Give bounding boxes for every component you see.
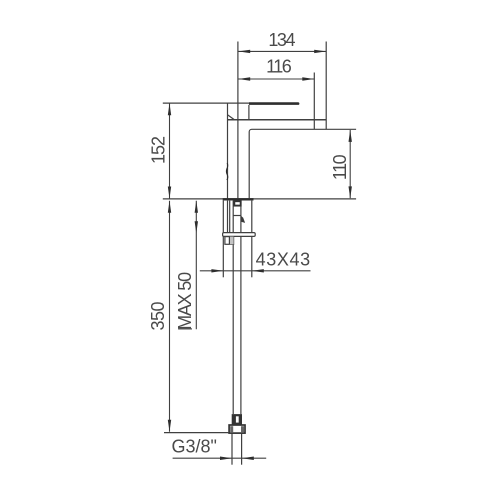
svg-text:350: 350	[148, 301, 168, 330]
svg-text:G3/8": G3/8"	[171, 436, 216, 456]
pipe top connector box	[234, 201, 240, 205]
svg-text:MAX 50: MAX 50	[175, 272, 195, 330]
shank left edge / 43X43 left extension	[222, 201, 224, 233]
svg-text:110: 110	[330, 154, 350, 180]
dimension line G3/8	[173, 457, 267, 459]
dimension line MAX 50	[195, 201, 197, 330]
dimension line 152	[169, 103, 171, 198]
arrow 350 top	[168, 201, 171, 213]
spout underside + 110 top reference line	[249, 129, 356, 198]
arrow 116 right	[302, 77, 314, 80]
svg-text:43X43: 43X43	[256, 250, 311, 270]
arrow 110 bottom	[349, 186, 352, 198]
svg-text:116: 116	[266, 56, 292, 76]
counter line	[163, 198, 356, 200]
arrow 350 bottom	[168, 420, 171, 432]
shank right edge / 43X43 right extension	[251, 201, 253, 233]
arrow 152 bottom	[168, 187, 171, 199]
handle base right edge	[248, 105, 250, 120]
hex fitting upper	[232, 414, 242, 425]
arrow 43X43 right (outside)	[252, 269, 264, 272]
arrow G3/8 right (outside)	[242, 457, 254, 461]
arrow MAX50 up	[195, 201, 198, 213]
bottom reference line (350)	[164, 432, 229, 434]
arrow 43X43 left (outside)	[211, 269, 223, 272]
dimension line 43X43	[200, 270, 311, 272]
supply pipe right edge	[240, 201, 242, 233]
arrow 134 right	[314, 50, 326, 53]
arrow MAX50 down	[195, 221, 198, 233]
mounting flange	[223, 233, 256, 237]
spout right end edge / 134 extension	[325, 42, 327, 130]
svg-text:152: 152	[149, 136, 169, 164]
arrow 116 left	[238, 77, 250, 80]
svg-text:134: 134	[268, 30, 295, 50]
dimension line 116	[238, 78, 314, 80]
faucet body left edge	[227, 103, 229, 199]
arrow 134 left	[238, 50, 250, 53]
mounting nut	[225, 237, 234, 245]
aerator edge / 116 extension	[313, 73, 315, 130]
dimension line 110	[349, 130, 351, 198]
hex fitting lower	[229, 425, 245, 433]
threaded tail left edge	[231, 434, 233, 465]
supply pipe left edge	[232, 201, 234, 233]
lever handle (thick bar)	[249, 102, 299, 105]
body edge wear mark	[226, 163, 227, 180]
threaded tail right edge	[241, 434, 243, 465]
lever top extension line (152 top reference)	[163, 102, 249, 104]
spout shoulder line	[228, 119, 327, 121]
dimension line 134	[238, 50, 326, 52]
pipe cross line	[233, 215, 241, 217]
arrow 110 top	[349, 130, 352, 142]
handle base chamfer	[228, 115, 235, 120]
MAX 50 end bar	[178, 328, 192, 330]
arrow G3/8 left (outside)	[220, 457, 232, 461]
clamp wedge	[241, 216, 245, 223]
faucet centerline / 134-116 left extension	[237, 42, 239, 199]
shank inner lines	[227, 201, 229, 233]
dimension line 350	[169, 201, 171, 432]
base gasket thick bar	[223, 198, 254, 200]
arrow 152 top	[168, 103, 171, 115]
